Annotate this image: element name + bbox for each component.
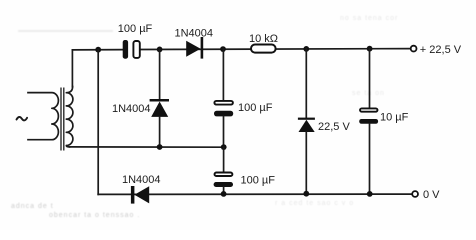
- terminal +22,5 V (open circle): [411, 46, 417, 52]
- svg-text:r a ced te sao c v o: r a ced te sao c v o: [275, 200, 354, 207]
- transformer T1 primary winding: [28, 93, 58, 140]
- svg-text:obencar ta o tenssao .: obencar ta o tenssao .: [49, 212, 140, 219]
- svg-text:100 µF: 100 µF: [118, 23, 153, 35]
- junction dot C4 / bottom rail: [221, 191, 227, 197]
- node C junction dot: [220, 46, 226, 52]
- wire: node C down to C2: [222, 49, 224, 100]
- transformer T1 secondary winding: [66, 87, 73, 147]
- wire: top rail right segment (C1 to +22,5V terminal): [140, 48, 411, 51]
- wire: bottom rail (corner through D3 to 0V terminal): [98, 193, 412, 195]
- diode D2 1N4004 (shunt, cathode bar up): [150, 99, 169, 117]
- capacitor C2 100 µF outlined plate: [214, 101, 233, 105]
- capacitor C1 100 µF outlined plate: [133, 41, 139, 58]
- svg-text:10 µF: 10 µF: [380, 112, 409, 124]
- AC source tilde ~: [17, 117, 28, 120]
- wire: node E down to C3: [369, 49, 371, 108]
- svg-text:22,5 V: 22,5 V: [318, 121, 350, 133]
- junction dot zener / bottom rail: [303, 191, 309, 197]
- svg-text:10 kΩ: 10 kΩ: [249, 33, 278, 45]
- junction dot middle rail / C2-C4 branch: [221, 144, 227, 150]
- node A junction dot: [95, 47, 101, 53]
- wire: node D down to zener cathode: [305, 49, 307, 118]
- wire: middle rail down to C4: [223, 147, 225, 172]
- zener diode ZD 22,5 V (cathode bar up, triangle apex up): [298, 118, 315, 132]
- wire: node B down to D2 cathode: [159, 49, 161, 99]
- wire: C3 bottom to bottom rail: [369, 124, 371, 194]
- resistor R1 10 kΩ: [251, 45, 276, 53]
- transformer T1 core: [61, 88, 64, 151]
- diode D3 1N4004 (bottom rail, pointing left): [131, 186, 149, 204]
- svg-text:+ 22,5 V: + 22,5 V: [420, 44, 462, 56]
- capacitor C3 10 µF outlined plate: [360, 108, 378, 111]
- svg-text:se ta on: se ta on: [352, 90, 385, 97]
- node E junction dot (C3 branch): [367, 46, 373, 52]
- svg-text:1N4004: 1N4004: [122, 174, 161, 186]
- wire: zener anode down to bottom rail: [305, 132, 307, 194]
- junction dot D2 anode / middle rail: [157, 144, 163, 150]
- wire: C2 bottom to middle rail: [223, 116, 225, 147]
- wire: vertical from node A down to bottom rail corner: [97, 50, 99, 195]
- svg-text:100 µF: 100 µF: [238, 102, 273, 114]
- node D junction dot (zener branch): [303, 46, 309, 52]
- capacitor C1 100 µF solid plate: [123, 40, 128, 59]
- svg-text:adnca de t: adnca de t: [11, 203, 54, 210]
- svg-text:no sa tena cor: no sa tena cor: [340, 15, 398, 22]
- terminal 0 V (open circle): [412, 191, 418, 197]
- wire: top rail left segment (corner to C1): [72, 49, 122, 51]
- capacitor C4 100 µF solid plate: [214, 182, 233, 187]
- svg-text:1N4004: 1N4004: [112, 103, 151, 115]
- svg-text:1N4004: 1N4004: [175, 27, 214, 39]
- capacitor C2 100 µF solid plate: [214, 111, 233, 117]
- junction dot C3 / bottom rail: [367, 191, 373, 197]
- wire: D2 anode down to middle rail: [159, 117, 161, 147]
- diode D1 1N4004 (series, pointing right): [186, 37, 203, 59]
- capacitor C4 100 µF outlined plate: [215, 173, 233, 177]
- wire: C4 bottom to bottom rail: [223, 187, 225, 194]
- wire: secondary top lead up to top rail: [71, 50, 73, 87]
- node B junction dot: [157, 47, 163, 53]
- wire: middle rail (secondary bottom to C2/C4 branch): [70, 146, 224, 148]
- capacitor C3 10 µF solid plate: [359, 119, 378, 124]
- svg-text:100 µF: 100 µF: [241, 174, 276, 186]
- svg-text:0 V: 0 V: [423, 189, 440, 201]
